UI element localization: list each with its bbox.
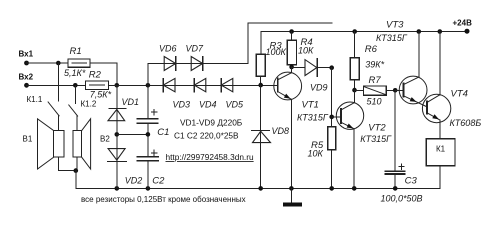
wire R6 bottom to VT2 collector node: [354, 80, 356, 90]
label VD4: [199, 100, 217, 110]
label VD8: [272, 126, 290, 136]
label R4: [301, 37, 313, 48]
junction rail VT1 emitter: [289, 186, 294, 191]
label VD9: [310, 83, 328, 93]
svg-text:http://299792458.3dn.ru: http://299792458.3dn.ru: [166, 152, 254, 162]
svg-text:10К: 10К: [298, 45, 314, 55]
value 510: [367, 97, 382, 107]
wire +24V top rail: [261, 32, 467, 55]
value 39К*: [365, 59, 384, 69]
capacitor C3: [386, 171, 405, 174]
svg-text:VD9: VD9: [310, 83, 328, 93]
junction VT2 base node: [329, 115, 334, 120]
svg-text:+24В: +24В: [453, 19, 473, 28]
junction on Вх2 line (K1.2 tap): [73, 83, 78, 88]
svg-text:VD2: VD2: [125, 176, 143, 186]
junction C1 column tap: [146, 83, 151, 88]
junction VT4 collector top: [438, 29, 443, 34]
note resistors power: [81, 195, 246, 204]
junction R4 top: [289, 29, 294, 34]
label VD2: [125, 176, 143, 186]
wire VT3 base: [395, 89, 403, 91]
svg-text:С1 С2 220,0*25В: С1 С2 220,0*25В: [174, 130, 239, 140]
label В1: [23, 135, 33, 144]
svg-text:VT1: VT1: [302, 99, 319, 110]
junction on Вх1 line (K1.1 tap): [56, 61, 61, 66]
loudspeaker B2: [73, 119, 91, 169]
value 10К R4: [298, 45, 314, 55]
capacitor C2: [137, 157, 158, 161]
wire R7 right to VT3 base node: [386, 89, 395, 91]
svg-text:VD8: VD8: [272, 126, 290, 136]
junction VT1 base node: [258, 83, 263, 88]
junction rail R5: [329, 186, 334, 191]
svg-text:VT2: VT2: [368, 122, 386, 133]
label VD3: [173, 100, 191, 110]
svg-text:В2: В2: [100, 135, 110, 144]
value 7,5К*: [90, 90, 112, 100]
junction VT3 collector top: [417, 29, 422, 34]
svg-text:Вх2: Вх2: [19, 73, 34, 82]
svg-text:R7: R7: [369, 75, 382, 86]
wire R1 right to Вх2 node: [90, 63, 117, 85]
junction VT2 collector node: [352, 88, 357, 93]
diode VD2: [107, 149, 126, 162]
transistor VT4: [422, 32, 450, 139]
polarity plus of C3: [399, 164, 404, 169]
svg-text:100К: 100К: [266, 47, 287, 57]
junction rail C3: [393, 186, 398, 191]
resistor R3: [256, 54, 265, 76]
note URL: [166, 152, 254, 162]
junction rail VD2: [115, 186, 120, 191]
label R1: [70, 46, 82, 57]
wire VD8 column: [260, 85, 262, 188]
svg-text:С3: С3: [405, 176, 418, 187]
wire R3 bottom to base line: [260, 76, 262, 85]
label VT2: [368, 122, 386, 133]
label К1.2: [81, 100, 97, 109]
svg-text:VT3: VT3: [386, 19, 404, 30]
svg-text:В1: В1: [23, 135, 33, 144]
relay coil K1: [426, 139, 455, 166]
svg-text:R6: R6: [365, 44, 378, 55]
wire Вх1 to R1: [27, 62, 69, 64]
junction rail VT2 emitter: [352, 186, 357, 191]
transistor VT1: [274, 67, 302, 188]
svg-text:все резисторы 0,125Вт кроме об: все резисторы 0,125Вт кроме обозначенных: [81, 195, 246, 204]
wire C3 column: [394, 90, 396, 188]
switch K1.2: [69, 85, 78, 130]
value КТ315Г VT3: [376, 33, 408, 43]
resistor R5: [328, 127, 336, 189]
diode VD6: [164, 57, 176, 71]
diode VD4: [194, 78, 206, 91]
svg-text:100,0*50В: 100,0*50В: [381, 194, 423, 204]
junction VD9 output: [329, 65, 334, 70]
transistor VT2: [336, 90, 363, 188]
diode VD9: [305, 59, 317, 77]
wire VD9 output column to VT2 base and R5: [331, 68, 333, 127]
junction VT1 collector node: [289, 65, 294, 70]
wire VD1 column: [116, 85, 118, 188]
label VT1: [302, 99, 319, 110]
junction speakers common: [74, 168, 79, 173]
wire Вх2 to R2: [27, 84, 86, 86]
svg-text:R1: R1: [70, 46, 82, 57]
resistor R1: [68, 59, 90, 67]
resistor R7: [355, 86, 387, 95]
label VT3: [386, 19, 404, 30]
label С3: [405, 176, 418, 187]
svg-text:КТ608Б: КТ608Б: [450, 118, 482, 128]
svg-text:7,5К*: 7,5К*: [90, 90, 112, 100]
polarity plus of C1: [152, 110, 157, 115]
svg-text:VT4: VT4: [451, 89, 468, 100]
wire K1 bottom to ground rail: [439, 166, 441, 189]
svg-text:С1: С1: [157, 127, 169, 138]
junction VD1-VD2 midpoint: [115, 132, 120, 137]
label VD1: [122, 97, 140, 107]
svg-text:Вх1: Вх1: [19, 50, 34, 59]
note С1 С2 220,0*25В: [174, 130, 239, 140]
junction R1/R2 output node: [115, 83, 120, 88]
junction R6 top: [352, 29, 357, 34]
label С1: [157, 127, 169, 138]
svg-text:С2: С2: [152, 176, 165, 187]
svg-text:10К: 10К: [308, 149, 324, 159]
label R5: [311, 140, 324, 151]
svg-text:510: 510: [367, 97, 382, 107]
resistor R2: [85, 81, 108, 89]
svg-text:5,1К*: 5,1К*: [64, 68, 86, 78]
transistor VT3: [399, 32, 427, 107]
svg-text:VD1: VD1: [122, 97, 140, 107]
svg-text:КТ315Г: КТ315Г: [360, 134, 392, 144]
svg-text:VD4: VD4: [199, 100, 217, 110]
resistor R4: [287, 32, 296, 65]
wire B2 bottom: [76, 157, 78, 170]
wire VT2 base: [332, 116, 341, 118]
diode VD1: [108, 109, 126, 121]
note VD1-VD9 Д220Б: [180, 117, 243, 127]
svg-text:R2: R2: [89, 70, 102, 81]
label Вх2: [19, 73, 34, 82]
wire C1 column: [147, 85, 149, 188]
value 10К R5: [308, 149, 324, 159]
svg-text:КТ315Г: КТ315Г: [297, 113, 329, 123]
label В2: [100, 135, 110, 144]
wire VD mid to C mid: [117, 133, 148, 135]
svg-text:39К*: 39К*: [365, 59, 384, 69]
diode VD8: [252, 131, 271, 143]
label VD7: [186, 44, 205, 54]
wire B1 bottom: [59, 157, 78, 170]
value КТ315Г VT1: [297, 113, 329, 123]
wire collector node to VD9: [292, 66, 305, 68]
svg-text:VD1-VD9 Д220Б: VD1-VD9 Д220Б: [180, 117, 243, 127]
diode VD5: [221, 78, 233, 91]
resistor R6: [350, 32, 359, 80]
label Вх1: [19, 50, 34, 59]
svg-text:VD7: VD7: [186, 44, 205, 54]
switch K1.1: [48, 63, 59, 131]
value 100К: [266, 47, 287, 57]
value КТ315Г VT2: [360, 134, 392, 144]
label VD6: [159, 44, 177, 54]
svg-text:VD6: VD6: [159, 44, 177, 54]
label К1.1: [27, 95, 43, 104]
junction rail C2: [146, 186, 151, 191]
junction rail VD8: [258, 186, 263, 191]
svg-text:VD3: VD3: [173, 100, 191, 110]
diode VD3: [163, 78, 175, 91]
ground symbol: [283, 188, 302, 206]
node Вх1 terminal: [24, 61, 29, 66]
diode VD7: [191, 57, 203, 71]
label R6: [365, 44, 378, 55]
value 5,1К*: [64, 68, 86, 78]
svg-text:К1.1: К1.1: [27, 95, 43, 104]
value КТ608Б: [450, 118, 482, 128]
svg-text:К1.2: К1.2: [81, 100, 97, 109]
node Вх2 terminal: [24, 83, 29, 88]
label R2: [89, 70, 102, 81]
junction C1-C2 midpoint: [146, 132, 151, 137]
wire VD9 to right column: [317, 67, 331, 69]
svg-text:К1: К1: [436, 145, 446, 154]
label VD5: [226, 100, 245, 110]
label R7: [369, 75, 382, 86]
ground rail: [76, 187, 440, 189]
label VT4: [451, 89, 468, 100]
node +24В terminal: [465, 29, 470, 34]
value 100,0*50В: [381, 194, 423, 204]
capacitor C1: [137, 119, 157, 123]
label С2: [152, 176, 165, 187]
label К1: [436, 145, 446, 154]
loudspeaker B1: [38, 119, 65, 169]
svg-text:VD5: VD5: [226, 100, 245, 110]
wire main detector line: [109, 84, 278, 86]
svg-text:КТ315Г: КТ315Г: [376, 33, 408, 43]
wire branch up to VD6 row and over to VD9 column: [148, 23, 332, 85]
label R3: [270, 40, 283, 51]
wire speakers common to rail: [75, 171, 77, 189]
wire R4 bottom: [291, 65, 293, 67]
junction VT3 base node: [393, 88, 398, 93]
polarity plus of C2: [152, 150, 157, 155]
label +24В: [453, 19, 473, 28]
